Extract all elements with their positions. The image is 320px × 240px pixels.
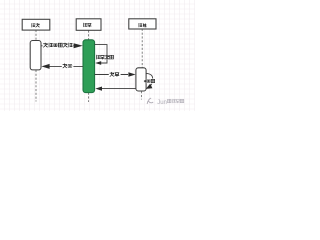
svg-text:Jun: Jun	[157, 100, 167, 106]
